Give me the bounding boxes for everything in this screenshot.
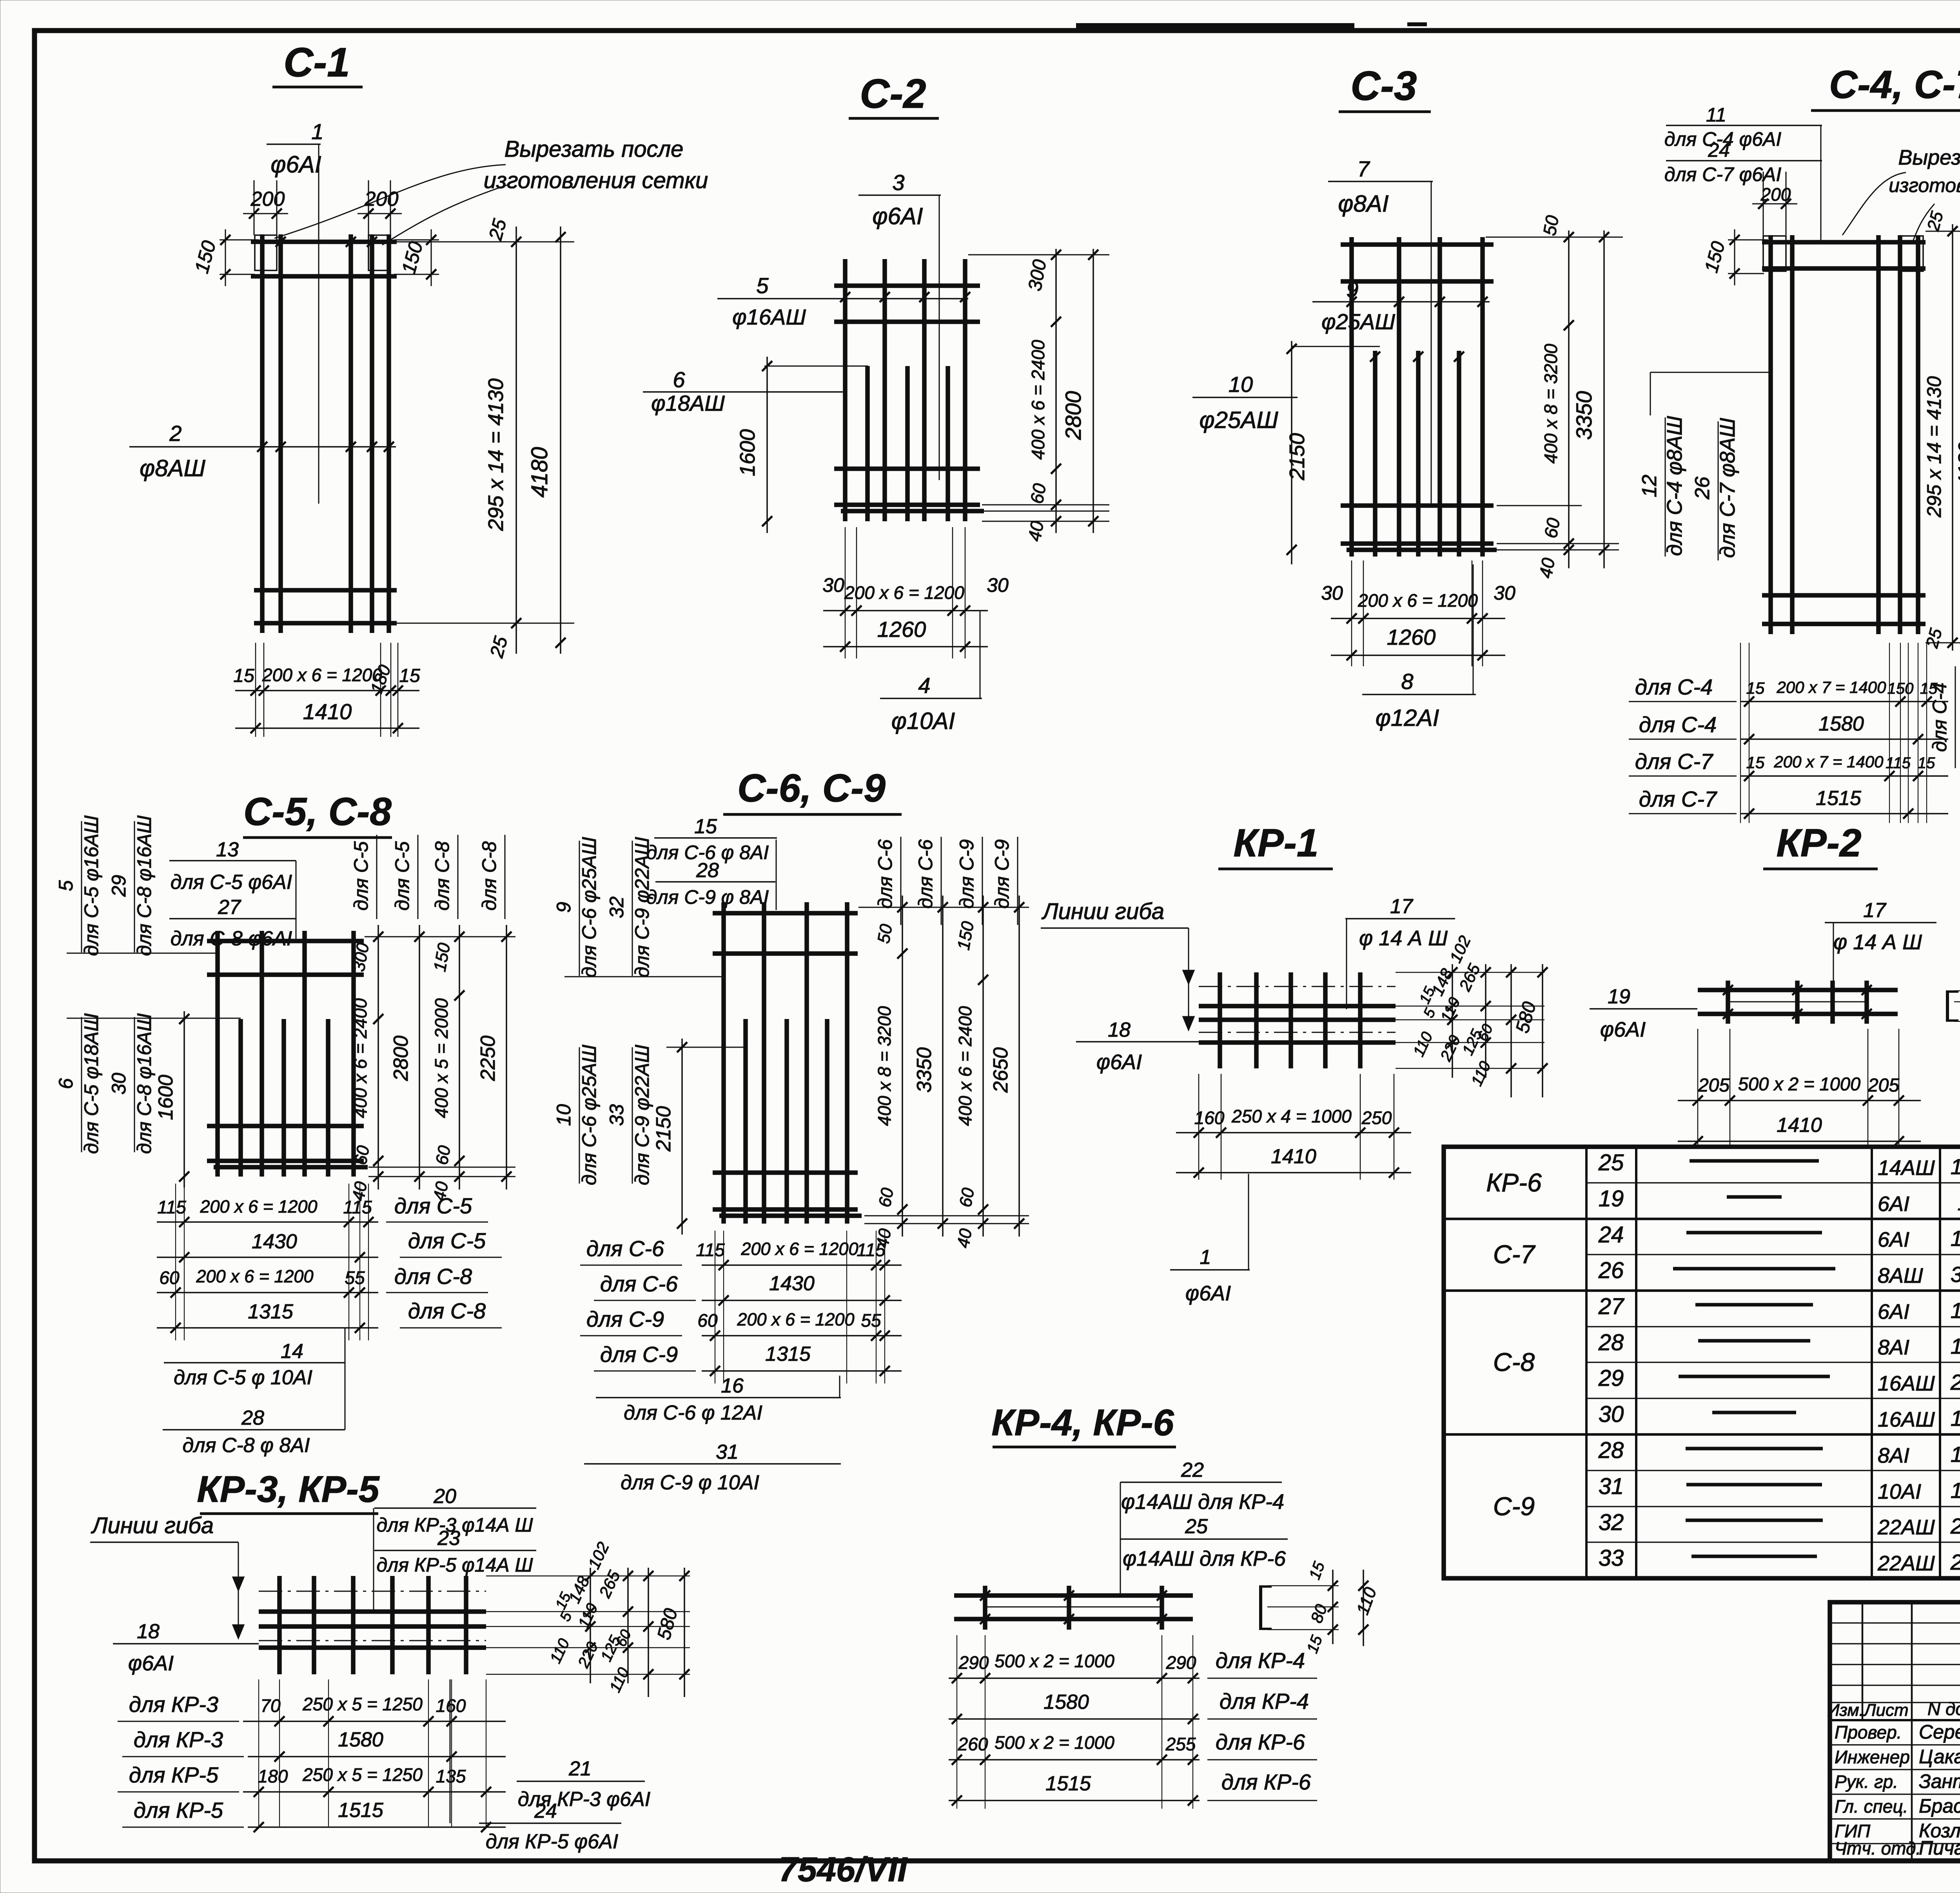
svg-text:φ16АШ: φ16АШ — [732, 305, 806, 329]
svg-text:20: 20 — [433, 1485, 456, 1508]
svg-text:1315: 1315 — [248, 1300, 294, 1323]
KP-1 leader pos 17 — [1346, 919, 1347, 1009]
svg-text:5: 5 — [756, 273, 769, 298]
C-5 left leader top — [67, 953, 218, 954]
svg-text:для С-5 φ18АШ: для С-5 φ18АШ — [80, 1013, 102, 1154]
KP-2 bottom dim 1410 — [1678, 1141, 1921, 1142]
svg-text:6АI: 6АI — [1878, 1192, 1909, 1216]
svg-text:для С-9: для С-9 — [991, 839, 1013, 908]
svg-text:17: 17 — [1390, 895, 1414, 918]
svg-text:29: 29 — [1598, 1365, 1624, 1391]
svg-text:φ6АI: φ6АI — [270, 151, 321, 178]
KP-2 bottom dim 205 500x2 205 — [1678, 1100, 1921, 1101]
svg-text:для С-9 φ 8АI: для С-9 φ 8АI — [646, 886, 769, 908]
svg-text:40: 40 — [953, 1227, 976, 1249]
C-6 leader pos 16 — [839, 1376, 840, 1398]
svg-text:φ6АI: φ6АI — [1600, 1018, 1646, 1041]
svg-text:для С-8 φ16АШ: для С-8 φ16АШ — [133, 815, 155, 956]
svg-text:для С-4: для С-4 — [1635, 675, 1713, 699]
C-5 chain dim 300 400x6 60 40 — [377, 925, 379, 1189]
svg-text:для С-6: для С-6 — [915, 839, 936, 908]
svg-text:для С-5: для С-5 — [394, 1193, 472, 1218]
svg-text:для КР-6: для КР-6 — [1216, 1730, 1305, 1754]
KP-3 right dim cluster extensions — [486, 1576, 690, 1577]
C-4 top dim 200 — [1763, 172, 1764, 235]
KP-4 bottom dim extensions — [956, 1635, 957, 1809]
svg-text:2800: 2800 — [390, 1035, 412, 1081]
svg-text:60: 60 — [956, 1186, 978, 1209]
C-6 dim 3350 — [942, 896, 944, 1237]
svg-text:φ12АI: φ12АI — [1376, 705, 1439, 731]
svg-text:8АШ: 8АШ — [1878, 1264, 1923, 1287]
svg-text:1410: 1410 — [1777, 1114, 1822, 1137]
C-2 left dim 1600 — [764, 366, 868, 367]
svg-text:для С-6: для С-6 — [600, 1271, 678, 1296]
svg-text:24: 24 — [1598, 1222, 1624, 1247]
KP-2 section bracket — [1946, 991, 1949, 1021]
C-6 chain dim 150 400x6 60 40 — [982, 896, 984, 1237]
svg-text:Браславский: Браславский — [1919, 1795, 1960, 1817]
svg-text:1430: 1430 — [252, 1230, 297, 1253]
KP-1 bottom dim 1410 — [1176, 1172, 1411, 1173]
svg-text:1410: 1410 — [303, 699, 352, 724]
svg-text:250 x 5 = 1250: 250 x 5 = 1250 — [302, 1764, 423, 1785]
svg-text:КР-1: КР-1 — [1233, 821, 1318, 865]
svg-text:295 x 14 = 4130: 295 x 14 = 4130 — [484, 379, 508, 531]
svg-text:φ25АШ: φ25АШ — [1199, 407, 1278, 433]
svg-text:160: 160 — [436, 1695, 466, 1716]
KP-3 bottom dim extensions — [258, 1679, 259, 1826]
svg-text:φ6АI: φ6АI — [128, 1652, 174, 1675]
svg-text:14АШ: 14АШ — [1878, 1156, 1935, 1180]
svg-text:33: 33 — [1599, 1545, 1624, 1571]
svg-text:2150: 2150 — [1950, 1550, 1960, 1574]
svg-text:500 x 2 = 1000: 500 x 2 = 1000 — [995, 1651, 1114, 1671]
svg-text:КР-6: КР-6 — [1486, 1168, 1542, 1197]
svg-text:1600: 1600 — [1951, 1406, 1960, 1431]
KP-1 mesh horizontal bars — [1199, 1004, 1396, 1008]
svg-text:С-1: С-1 — [283, 40, 350, 85]
C-1 leader for pos 1 — [318, 144, 319, 504]
svg-text:2150: 2150 — [1285, 433, 1309, 481]
svg-text:для С-9: для С-9 — [600, 1342, 678, 1367]
svg-text:200 x 7 = 1400: 200 x 7 = 1400 — [1773, 752, 1884, 771]
C-3 right dim extensions — [1486, 237, 1623, 238]
svg-text:С-4, С-7: С-4, С-7 — [1829, 63, 1960, 107]
C-5 chain dim 150 400x5 60 40 — [459, 925, 460, 1189]
KP-1 bottom dim extensions — [1198, 1074, 1200, 1180]
svg-text:15: 15 — [1746, 679, 1765, 697]
svg-text:200 x 6 = 1200: 200 x 6 = 1200 — [1357, 590, 1478, 611]
C-4 mesh vertical bars — [1768, 235, 1773, 634]
svg-text:33: 33 — [606, 1104, 628, 1126]
svg-text:Середенко: Середенко — [1919, 1721, 1960, 1743]
svg-text:60: 60 — [875, 1186, 897, 1209]
svg-text:С-6, С-9: С-6, С-9 — [737, 766, 886, 810]
svg-text:для С-9 φ22АШ: для С-9 φ22АШ — [631, 1044, 653, 1185]
KP-1 bend lines thin — [1199, 986, 1396, 987]
svg-text:28: 28 — [241, 1407, 264, 1429]
C-3 mesh short vertical bars — [1373, 351, 1377, 557]
svg-text:φ10АI: φ10АI — [891, 708, 955, 734]
svg-text:для С-5 φ6АI: для С-5 φ6АI — [171, 871, 292, 894]
C-5 right dim extensions — [365, 936, 515, 937]
svg-text:10: 10 — [553, 1104, 575, 1126]
C-2 dim 2800 — [1093, 249, 1094, 533]
svg-text:200 x 6 = 1200: 200 x 6 = 1200 — [844, 582, 964, 603]
svg-text:25: 25 — [1185, 1515, 1208, 1538]
svg-text:50: 50 — [874, 923, 896, 945]
svg-text:КР-4, КР-6: КР-4, КР-6 — [991, 1402, 1174, 1443]
svg-text:400 x 6 = 2400: 400 x 6 = 2400 — [1028, 340, 1048, 460]
svg-text:Цаканян: Цаканян — [1919, 1746, 1960, 1768]
svg-text:27: 27 — [218, 896, 241, 919]
svg-text:70: 70 — [260, 1695, 281, 1716]
svg-text:6АI: 6АI — [1878, 1300, 1909, 1324]
svg-text:1430: 1430 — [769, 1272, 815, 1295]
svg-text:260: 260 — [958, 1734, 988, 1754]
svg-text:50: 50 — [1539, 214, 1563, 237]
C-1 top dimension 200 right — [368, 180, 369, 235]
KP-3 right dim verticals — [590, 1568, 591, 1683]
svg-text:16: 16 — [721, 1374, 744, 1397]
svg-text:28: 28 — [696, 859, 719, 882]
KP-1 bottom dim 160 250x4 250 — [1176, 1132, 1411, 1133]
scan artifact dark streak on top border — [1076, 23, 1354, 29]
C-6 mesh short vertical bars — [743, 1019, 748, 1224]
C-5 mesh vertical bars — [215, 931, 220, 1177]
svg-text:32: 32 — [606, 896, 628, 918]
svg-text:для С-6: для С-6 — [874, 839, 896, 908]
svg-text:115: 115 — [1886, 754, 1911, 772]
C-1 right dim extension lines — [397, 241, 574, 243]
svg-text:2250: 2250 — [1950, 1370, 1960, 1394]
KP-1 leader pos 1 — [1248, 1174, 1249, 1270]
C-6 dim 2650 — [1018, 896, 1020, 1237]
KP-3 leader — [373, 1508, 374, 1611]
title block left revision grid — [1830, 1622, 1960, 1623]
svg-text:16АШ: 16АШ — [1878, 1372, 1935, 1395]
C-2 leader pos 3 — [939, 195, 940, 480]
C-5 leader top — [296, 861, 297, 939]
svg-text:115: 115 — [857, 1240, 886, 1260]
svg-text:1580: 1580 — [1818, 713, 1864, 735]
svg-text:1315: 1315 — [1951, 1298, 1960, 1323]
svg-text:КР-3, КР-5: КР-3, КР-5 — [197, 1469, 379, 1510]
svg-text:для С-9: для С-9 — [956, 839, 978, 908]
svg-text:15: 15 — [233, 665, 254, 686]
C-5 mesh short vertical bars — [238, 1019, 243, 1177]
svg-text:1515: 1515 — [1045, 1772, 1091, 1795]
KP-2 bottom dim extensions — [1697, 1029, 1699, 1148]
svg-text:60: 60 — [1026, 482, 1050, 505]
C-1 mesh horizontal bars pos 1 — [251, 239, 397, 244]
C-2 mesh long vertical bars — [843, 259, 848, 521]
C-3 bottom dims 30 200x6=1200 30 — [1351, 560, 1352, 666]
C-6 bottom dim rows — [715, 1231, 715, 1383]
svg-text:2: 2 — [169, 421, 181, 446]
C-3 mesh horizontal bars — [1341, 242, 1494, 247]
svg-text:изготовления сетки: изготовления сетки — [1889, 174, 1960, 196]
svg-text:17: 17 — [1863, 899, 1887, 922]
svg-text:Изм.: Изм. — [1827, 1701, 1864, 1720]
KP-4 mesh vertical bars — [983, 1586, 987, 1630]
KP-4 mesh horizontal bars — [954, 1593, 1193, 1598]
svg-text:3580: 3580 — [1951, 1262, 1960, 1287]
C-2 bottom dim 1260 — [823, 646, 988, 647]
svg-text:для КР-6: для КР-6 — [1221, 1770, 1311, 1794]
svg-text:для С-4 φ8АШ: для С-4 φ8АШ — [1663, 416, 1686, 556]
C-1 dim 295x14=4130 — [515, 227, 517, 654]
svg-text:для С-6: для С-6 — [586, 1236, 664, 1261]
svg-text:28: 28 — [1598, 1438, 1624, 1463]
KP-1 bend leader with arrows — [1188, 928, 1189, 1030]
bottom table outer border — [1444, 1147, 1960, 1578]
KP-1 mesh vertical bars — [1218, 972, 1222, 1068]
title block outer border — [1830, 1602, 1960, 1861]
note leader curves — [274, 165, 506, 238]
svg-text:для С-8 φ16АШ: для С-8 φ16АШ — [133, 1013, 155, 1154]
C-1 left dimension 150 — [220, 239, 259, 241]
svg-text:200 x 7 = 1400: 200 x 7 = 1400 — [1776, 678, 1886, 696]
svg-text:1515: 1515 — [1951, 1226, 1960, 1251]
C-1 top dimension 200 left — [254, 180, 255, 235]
svg-text:400 x 6 = 2400: 400 x 6 = 2400 — [955, 1006, 975, 1126]
svg-text:для КР-5: для КР-5 — [129, 1762, 219, 1787]
KP-2 mesh horizontal bars — [1698, 988, 1898, 992]
svg-text:150: 150 — [1887, 680, 1914, 697]
svg-text:15: 15 — [399, 665, 420, 686]
svg-text:250 x 5 = 1250: 250 x 5 = 1250 — [302, 1694, 423, 1714]
svg-text:для С-7 φ6АI: для С-7 φ6АI — [1664, 163, 1782, 185]
svg-text:60: 60 — [351, 1144, 373, 1166]
svg-text:400 x 8 = 3200: 400 x 8 = 3200 — [874, 1006, 895, 1126]
svg-text:14: 14 — [281, 1340, 303, 1363]
svg-text:22АШ: 22АШ — [1877, 1552, 1935, 1575]
svg-text:115: 115 — [696, 1240, 725, 1260]
svg-text:для С-7: для С-7 — [1639, 787, 1717, 811]
C-4 leader top — [1820, 125, 1822, 242]
svg-text:60: 60 — [432, 1144, 454, 1166]
svg-text:13: 13 — [216, 838, 239, 861]
svg-text:1315: 1315 — [1951, 1334, 1960, 1358]
svg-text:28: 28 — [1598, 1330, 1624, 1355]
svg-text:55: 55 — [861, 1310, 881, 1331]
C-6 mesh horizontal bars — [713, 911, 858, 916]
svg-text:3350: 3350 — [1572, 391, 1596, 440]
svg-text:С-3: С-3 — [1350, 63, 1417, 109]
svg-text:для С-9 φ 10АI: для С-9 φ 10АI — [621, 1471, 759, 1494]
svg-text:8: 8 — [1401, 669, 1413, 694]
svg-text:φ 14 А Ш: φ 14 А Ш — [1833, 930, 1922, 954]
svg-text:11: 11 — [1706, 104, 1726, 126]
C-5 dim 2250 — [506, 925, 507, 1189]
C-1 bottom dim 1410 — [235, 727, 419, 729]
C-4 bottom row dims for C-4 and C-7 — [1740, 643, 1741, 823]
svg-text:для КР-5 φ14А Ш: для КР-5 φ14А Ш — [376, 1554, 533, 1576]
svg-text:для КР-4: для КР-4 — [1220, 1689, 1309, 1713]
svg-text:2650: 2650 — [1950, 1514, 1960, 1538]
svg-text:22: 22 — [1181, 1459, 1204, 1481]
svg-text:КР-2: КР-2 — [1776, 821, 1861, 865]
svg-text:30: 30 — [108, 1073, 130, 1095]
svg-text:160: 160 — [1194, 1108, 1225, 1128]
svg-text:для С-5: для С-5 — [350, 841, 372, 910]
svg-text:205: 205 — [1867, 1075, 1899, 1096]
svg-text:для С-4: для С-4 — [1929, 682, 1951, 752]
svg-text:для С-5: для С-5 — [391, 841, 413, 910]
svg-text:290: 290 — [1166, 1652, 1196, 1673]
KP-2 leader pos 17 — [1833, 923, 1834, 1003]
svg-text:200 x 6 = 1200: 200 x 6 = 1200 — [196, 1266, 313, 1286]
svg-text:40: 40 — [1024, 519, 1047, 543]
svg-text:200: 200 — [1760, 184, 1791, 205]
svg-text:φ18АШ: φ18АШ — [651, 391, 725, 415]
C-5 bottom leader — [345, 1328, 346, 1430]
svg-text:2800: 2800 — [1061, 391, 1085, 441]
svg-text:400 x 5 = 2000: 400 x 5 = 2000 — [431, 998, 452, 1118]
svg-text:для С-5: для С-5 — [408, 1228, 486, 1253]
svg-text:1260: 1260 — [877, 617, 926, 642]
svg-text:200 x 6 = 1200: 200 x 6 = 1200 — [200, 1197, 317, 1217]
C-3 bottom dim 1260 — [1331, 655, 1505, 656]
svg-text:60: 60 — [1540, 516, 1564, 540]
svg-text:для С-5 φ16АШ: для С-5 φ16АШ — [80, 815, 102, 956]
svg-text:19: 19 — [1599, 1186, 1624, 1211]
svg-text:Рук. гр.: Рук. гр. — [1835, 1772, 1898, 1792]
svg-text:изготовления сетки: изготовления сетки — [484, 168, 708, 193]
svg-text:φ25АШ: φ25АШ — [1321, 309, 1395, 334]
svg-text:18: 18 — [137, 1620, 160, 1643]
svg-text:26: 26 — [1598, 1258, 1624, 1283]
svg-text:φ14АШ для КР-6: φ14АШ для КР-6 — [1123, 1547, 1286, 1570]
svg-text:для С-8 φ 8АI: для С-8 φ 8АI — [183, 1434, 310, 1457]
svg-text:С-8: С-8 — [1493, 1347, 1535, 1376]
svg-text:200 x 6 = 1200: 200 x 6 = 1200 — [740, 1239, 858, 1259]
svg-text:55: 55 — [345, 1267, 365, 1288]
KP-3 bend leader — [238, 1542, 239, 1638]
svg-text:200: 200 — [250, 188, 285, 210]
C-2 right dim extensions — [968, 254, 1109, 256]
svg-text:для С-6 φ25АШ: для С-6 φ25АШ — [578, 1044, 600, 1185]
C-4 chain 25 295x14 25 — [1952, 224, 1953, 651]
svg-text:15: 15 — [1918, 754, 1935, 772]
svg-text:Линии гиба: Линии гиба — [1041, 899, 1164, 924]
svg-text:5: 5 — [55, 880, 77, 891]
svg-text:110: 110 — [1957, 1190, 1960, 1215]
svg-text:18: 18 — [1108, 1019, 1131, 1041]
svg-text:26: 26 — [1691, 477, 1714, 500]
KP-3 mesh horizontal bars — [259, 1609, 486, 1614]
svg-text:21: 21 — [568, 1757, 592, 1780]
C-3 chain dim 50 400x8 60 40 — [1568, 230, 1570, 568]
svg-text:φ8АI: φ8АI — [1338, 190, 1388, 217]
svg-text:6: 6 — [673, 367, 685, 392]
C-6 dim 2150 — [681, 1039, 683, 1235]
C-6 right dim extensions — [858, 907, 1029, 908]
svg-text:22АШ: 22АШ — [1877, 1516, 1935, 1539]
svg-text:1515: 1515 — [1951, 1154, 1960, 1179]
C-3 mesh long vertical bars — [1349, 237, 1354, 557]
svg-text:φ6АI: φ6АI — [872, 203, 923, 229]
svg-text:30: 30 — [822, 574, 844, 596]
svg-text:115: 115 — [157, 1197, 186, 1217]
svg-text:1: 1 — [311, 119, 323, 144]
svg-text:135: 135 — [436, 1766, 466, 1786]
C-5 dim 1600 — [183, 1011, 185, 1188]
KP-2 mesh vertical bars — [1726, 981, 1730, 1024]
svg-text:φ6АI: φ6АI — [1096, 1050, 1142, 1074]
svg-text:200 x 6 = 1200: 200 x 6 = 1200 — [737, 1309, 854, 1329]
svg-text:60: 60 — [697, 1310, 718, 1331]
C-1 bottom dims 15 200x6=1200 180 15 — [255, 643, 256, 737]
svg-text:3350: 3350 — [913, 1047, 936, 1093]
svg-text:400 x 6 = 2400: 400 x 6 = 2400 — [350, 998, 370, 1118]
C-5 dim 2800 — [419, 925, 420, 1189]
svg-text:10: 10 — [1229, 372, 1253, 397]
svg-text:для С-8: для С-8 — [478, 841, 500, 910]
svg-text:С-7: С-7 — [1493, 1240, 1536, 1269]
svg-text:30: 30 — [987, 574, 1009, 596]
svg-text:60: 60 — [159, 1267, 180, 1288]
svg-text:250: 250 — [1361, 1108, 1392, 1128]
KP-1 right dim cluster extensions — [1396, 972, 1544, 973]
svg-text:7546/VII: 7546/VII — [779, 1850, 907, 1889]
svg-text:30: 30 — [1494, 582, 1515, 604]
svg-text:3: 3 — [892, 170, 904, 195]
svg-text:1580: 1580 — [1044, 1691, 1089, 1713]
KP-4 section bracket — [1259, 1586, 1262, 1630]
svg-text:Зантберг: Зантберг — [1919, 1770, 1960, 1792]
C-2 mesh horizontal bars — [834, 283, 980, 288]
KP-3 mesh vertical bars — [277, 1576, 282, 1674]
KP-2 section dims — [1954, 990, 1960, 992]
svg-text:Пичажчи: Пичажчи — [1919, 1837, 1960, 1859]
svg-text:для КР-4: для КР-4 — [1216, 1648, 1305, 1673]
svg-text:1315: 1315 — [1951, 1442, 1960, 1467]
svg-text:500 x 2 = 1000: 500 x 2 = 1000 — [995, 1732, 1114, 1753]
C-2 chain dim 300 400x6 60 40 — [1055, 249, 1057, 533]
svg-text:1600: 1600 — [154, 1075, 177, 1120]
svg-text:9: 9 — [553, 902, 575, 913]
svg-text:1315: 1315 — [765, 1343, 811, 1365]
svg-text:для КР-5: для КР-5 — [134, 1798, 223, 1822]
svg-text:1410: 1410 — [1271, 1145, 1316, 1168]
svg-text:С-2: С-2 — [860, 71, 926, 117]
svg-text:205: 205 — [1698, 1075, 1730, 1096]
svg-text:1600: 1600 — [736, 429, 759, 476]
KP-2 mesh middle thin bar — [1728, 1001, 1867, 1003]
svg-text:для КР-3: для КР-3 — [129, 1692, 218, 1717]
svg-text:30: 30 — [1321, 582, 1343, 604]
KP-3 bend lines thin — [259, 1591, 486, 1592]
C-4 mesh horizontal bars — [1762, 240, 1926, 245]
C-1 cut squares at mesh top — [255, 235, 277, 270]
svg-text:для С-6 φ25АШ: для С-6 φ25АШ — [578, 837, 600, 977]
svg-text:2150: 2150 — [652, 1106, 675, 1152]
C-6 left leader top — [564, 976, 724, 977]
svg-text:1580: 1580 — [338, 1728, 383, 1751]
svg-text:10АI: 10АI — [1878, 1480, 1921, 1503]
svg-text:для С-4: для С-4 — [1639, 712, 1717, 737]
svg-text:295 x 14 = 4130: 295 x 14 = 4130 — [1923, 376, 1945, 518]
svg-text:для С-9 φ22АШ: для С-9 φ22АШ — [631, 837, 653, 977]
KP-4 mesh middle thin bar — [985, 1607, 1162, 1608]
svg-text:500 x 2 = 1000: 500 x 2 = 1000 — [1738, 1073, 1860, 1094]
svg-text:16АШ: 16АШ — [1878, 1408, 1935, 1431]
svg-text:400 x 8 = 3200: 400 x 8 = 3200 — [1541, 344, 1561, 464]
svg-text:27: 27 — [1598, 1294, 1625, 1319]
